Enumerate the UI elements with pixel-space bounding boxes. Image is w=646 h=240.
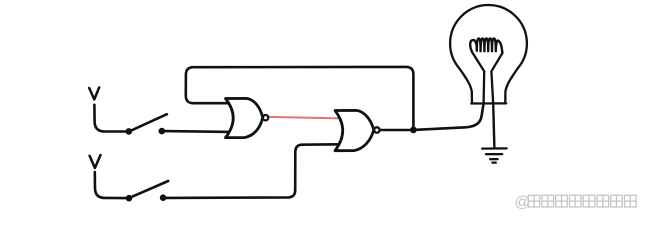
wire: feedback loop from node A to U1 input A xyxy=(186,67,414,127)
node: S2 pole contact xyxy=(126,195,133,202)
node: S1 pole contact xyxy=(126,128,133,135)
wire: S2 supply lead xyxy=(95,172,126,198)
ground symbol xyxy=(482,148,506,162)
NOR gate U1 xyxy=(226,98,263,137)
watermark @稀土掘金技术社区 xyxy=(515,194,637,211)
U1 output bubble xyxy=(263,115,268,120)
node: S2 throw contact xyxy=(160,194,167,201)
wire: lamp right lead to ground xyxy=(493,103,494,147)
U2 output bubble xyxy=(374,127,379,132)
lamp DS1 filament coil xyxy=(470,38,502,53)
node A: output junction xyxy=(410,126,417,133)
wire: U1 output to U2 input A (red) xyxy=(268,117,340,119)
lamp DS1 base line xyxy=(471,102,506,104)
switch S1 lever xyxy=(130,114,167,131)
wire: S1 supply lead xyxy=(94,105,125,132)
lamp DS1 right internal lead and support xyxy=(491,53,502,103)
node: S1 throw contact xyxy=(159,128,166,135)
NOR gate U2 xyxy=(335,110,374,150)
switch S2 lever xyxy=(130,181,168,197)
wire: S1 throw to U1 input B xyxy=(165,130,231,133)
wire: S2 throw to U2 input B xyxy=(166,144,339,198)
wire: node A to lamp left lead xyxy=(413,103,483,129)
label V (switch S1 supply) xyxy=(89,87,99,99)
lamp DS1 left internal lead and support xyxy=(472,52,484,103)
lamp DS1 glass envelope xyxy=(450,5,527,103)
wire: U2 output to node A xyxy=(380,129,411,132)
label V (switch S2 supply) xyxy=(90,155,101,168)
